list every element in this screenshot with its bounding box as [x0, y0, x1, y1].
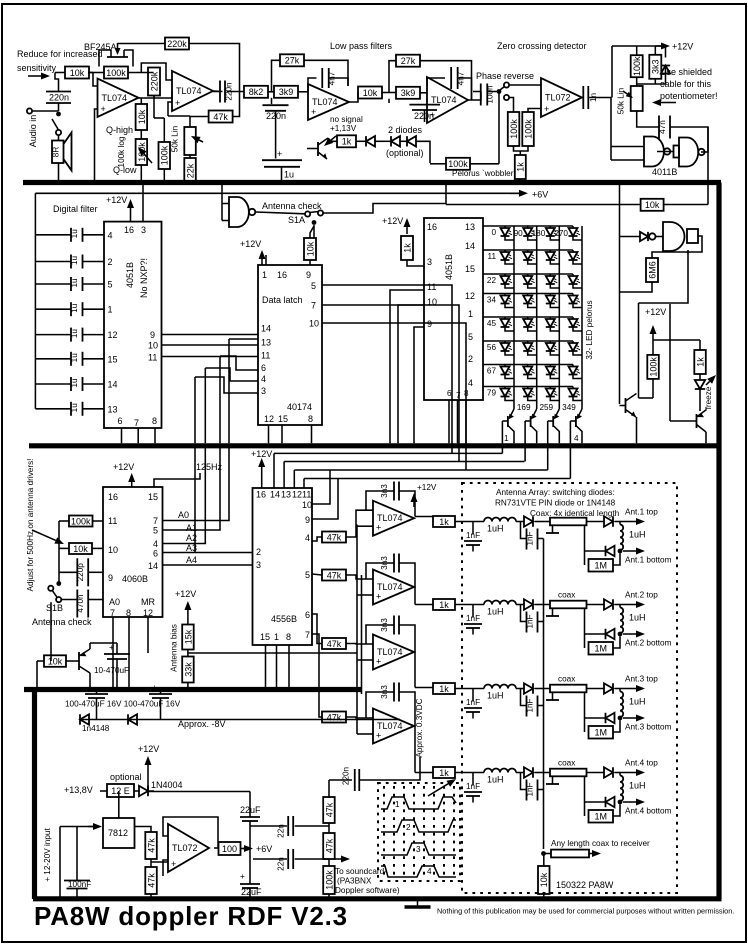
svg-text:6: 6	[261, 363, 266, 373]
svg-text:2: 2	[468, 354, 473, 364]
svg-text:+12V: +12V	[251, 449, 272, 459]
wire driver base feed 3	[294, 469, 547, 471]
LED D32	[527, 274, 529, 276]
svg-text:potentiometer!: potentiometer!	[660, 91, 718, 101]
resistor 1k ch2	[433, 599, 455, 610]
diode freeze LED	[695, 380, 705, 389]
wire 1n to 4011 inputs	[589, 98, 611, 161]
svg-text:100k: 100k	[106, 68, 126, 78]
nand gate U3d antenna check	[221, 185, 223, 221]
capacitor 220n audio input	[46, 91, 71, 93]
resistor 1k ch3	[433, 683, 455, 694]
wire op2 inputs	[141, 63, 172, 80]
resistor 33k	[182, 657, 194, 683]
svg-text:TL074: TL074	[377, 721, 403, 731]
transistor Q freeze right	[696, 414, 698, 428]
svg-text:Zero crossing detector: Zero crossing detector	[497, 41, 587, 51]
svg-text:+: +	[152, 683, 157, 692]
arrow to transistor	[331, 136, 336, 140]
wire to ant bottom ch1	[623, 550, 636, 552]
svg-text:Nothing of this publication ma: Nothing of this publication may be used …	[437, 907, 734, 916]
LED D71	[504, 365, 506, 367]
resistor 100k vertical mid	[159, 142, 171, 169]
svg-text:10: 10	[427, 297, 437, 307]
svg-text:10k: 10k	[539, 872, 549, 887]
svg-text:15: 15	[260, 632, 270, 642]
svg-text:12: 12	[143, 608, 153, 618]
svg-text:0: 0	[491, 228, 496, 237]
LED D81	[504, 387, 506, 389]
wire op plus ch3	[357, 659, 373, 661]
resistor 3k9 first	[274, 86, 298, 98]
svg-text:1k: 1k	[516, 162, 526, 172]
diode switching ch2	[524, 599, 533, 609]
wire op1 out to 10k-v	[140, 98, 142, 104]
transistor Q1 column driver	[507, 416, 509, 427]
LED D44	[572, 294, 574, 296]
svg-text:16: 16	[277, 270, 287, 280]
svg-text:4: 4	[305, 533, 310, 543]
inductor 1uH vertical ch1	[619, 522, 621, 525]
nand gate U3c with input bubble	[649, 233, 655, 239]
svg-text:+12V: +12V	[240, 239, 261, 249]
op-amp U2b TL072	[168, 824, 209, 872]
resistor 47k driver ch1	[322, 532, 346, 543]
svg-text:4: 4	[261, 374, 266, 384]
svg-text:Q-low: Q-low	[113, 165, 137, 175]
ground symbol bottom	[417, 899, 419, 906]
wire 47n to gate2 out	[670, 127, 708, 153]
capacitor 1u rung 8 pin 13	[35, 408, 71, 410]
wire 100k bottoms join	[514, 146, 529, 151]
transistor Q freeze left	[625, 398, 627, 413]
svg-text:1u: 1u	[70, 256, 79, 266]
diode D3 optional	[407, 136, 416, 146]
wire 10k latch to pin9	[309, 260, 311, 265]
wire wobbler to phase node	[498, 92, 500, 164]
svg-text:10k: 10k	[48, 656, 63, 666]
svg-text:79: 79	[487, 389, 497, 398]
wire 47k junction	[150, 859, 152, 867]
svg-text:8: 8	[152, 416, 157, 426]
LED D14	[572, 226, 574, 228]
capacitor 100nF	[64, 880, 90, 882]
wire latch pin1 stub	[265, 255, 267, 265]
capacitor 1nF series ch4	[521, 773, 527, 790]
wire feedback TL072	[163, 817, 218, 849]
wire out to 22n caps	[250, 825, 287, 827]
svg-text:3: 3	[256, 560, 261, 570]
svg-text:TL072: TL072	[172, 843, 198, 853]
resistor 1M ch1	[589, 559, 614, 572]
wire LED row 6	[484, 340, 574, 342]
svg-text:10: 10	[309, 319, 319, 329]
svg-text:40174: 40174	[287, 402, 312, 412]
capacitor 220n op2 output	[219, 81, 221, 103]
resistor 6M6	[646, 258, 658, 282]
svg-text:100k: 100k	[160, 145, 170, 165]
op-amp U1a TL074	[98, 79, 139, 118]
LED D34	[572, 274, 574, 276]
resistor 100 ohm	[219, 842, 241, 855]
wire op4 output	[468, 92, 481, 101]
svg-text:6: 6	[118, 416, 123, 426]
wire 220k right to op2 output node	[189, 44, 240, 92]
wire IC1 bottom pins to bus	[121, 428, 123, 443]
svg-text:S1B: S1B	[46, 603, 63, 613]
inductor 1uH ch3	[484, 685, 516, 689]
capacitor 1u rung 2 pin 2	[35, 261, 71, 263]
svg-text:3: 3	[141, 225, 146, 235]
potentiometer 50k Lin shielded	[631, 86, 643, 111]
resistor 3k3	[649, 55, 661, 79]
LED D61	[504, 341, 506, 343]
svg-text:100k: 100k	[324, 870, 334, 890]
resistor 1M ch4	[589, 810, 614, 823]
wire 1k freeze top	[699, 340, 701, 350]
svg-text:7: 7	[456, 391, 461, 400]
svg-text:47k: 47k	[327, 639, 342, 649]
wire left rail S1B	[58, 521, 60, 584]
svg-text:4556B: 4556B	[271, 614, 297, 624]
wire bias rail vertical	[356, 525, 358, 735]
wire wobbler leads	[430, 163, 446, 165]
svg-text:sensitivity: sensitivity	[17, 63, 57, 73]
wire 1k wobbler to ground bus	[519, 179, 521, 181]
svg-text:+: +	[311, 107, 316, 117]
svg-text:Ant.2 bottom: Ant.2 bottom	[625, 639, 672, 648]
wire gate3 to 12V node	[639, 250, 689, 303]
svg-text:MR: MR	[141, 597, 155, 607]
svg-text:220n: 220n	[49, 93, 69, 103]
wire cap to collector	[90, 642, 117, 644]
svg-text:2: 2	[406, 823, 411, 832]
svg-text:1: 1	[262, 270, 267, 280]
svg-text:16: 16	[427, 222, 437, 232]
svg-text:15k: 15k	[183, 629, 193, 644]
capacitor 22n a	[287, 816, 289, 836]
resistor 10k lpf	[358, 87, 382, 99]
svg-text:+: +	[376, 731, 381, 741]
diode antenna bottom ch1	[606, 546, 615, 556]
svg-text:no signal: no signal	[330, 115, 363, 124]
svg-text:6M6: 6M6	[647, 261, 657, 279]
LED D21	[504, 250, 506, 252]
svg-text:TL072: TL072	[545, 93, 571, 103]
svg-text:9: 9	[108, 573, 113, 583]
svg-text:7: 7	[134, 418, 139, 428]
svg-text:100nF: 100nF	[68, 880, 91, 889]
wire S1A to right	[323, 204, 446, 214]
wire switch bottom node	[509, 98, 514, 113]
wire latch right pin5 loop	[322, 285, 452, 453]
wire 27k op4 loop	[389, 61, 396, 93]
svg-text:3: 3	[416, 845, 421, 854]
capacitor 100n phase	[480, 84, 482, 106]
wire 10k right to 4011 node	[664, 204, 708, 206]
transistor bias npn	[317, 142, 319, 156]
wire op2 output to 220n	[213, 90, 223, 93]
wire 47k to op minus ch4	[346, 717, 373, 718]
inductor 1uH ch4	[484, 769, 516, 773]
wire 4556 top pins up	[273, 453, 275, 488]
wire TL072 plus	[163, 860, 168, 876]
svg-text:Any length coax to receiver: Any length coax to receiver	[551, 839, 650, 848]
wire pot bottom to ground bus	[140, 165, 142, 180]
wire feedback ch3	[366, 625, 394, 644]
LED D33	[549, 274, 551, 276]
svg-text:16: 16	[108, 492, 118, 502]
svg-text:32- LED pelorus: 32- LED pelorus	[585, 300, 594, 359]
diode antenna top ch4	[604, 767, 613, 777]
wire LED row 7	[484, 364, 574, 366]
wire input to 7812	[60, 826, 94, 828]
op-amp U9 ch2 TL074	[373, 570, 414, 605]
wire LED row 5	[484, 316, 574, 318]
wire JFET leads	[99, 50, 111, 67]
resistor 10k 4060	[69, 543, 92, 554]
svg-text:+: +	[88, 683, 93, 692]
svg-text:14: 14	[261, 324, 271, 334]
wire 10k latch top to switch	[313, 225, 315, 238]
waveform trace 4	[381, 866, 456, 877]
wire +12V rail top	[612, 45, 662, 47]
wire gate2 output	[701, 151, 708, 153]
wire diode junctions	[375, 140, 391, 142]
wires latch left feeders	[228, 339, 230, 443]
LED D64	[572, 341, 574, 343]
wire coil bottom ch4	[619, 800, 621, 803]
svg-text:220n: 220n	[342, 766, 351, 785]
svg-text:100n: 100n	[486, 85, 495, 104]
svg-text:4060B: 4060B	[122, 574, 148, 584]
svg-text:22: 22	[487, 276, 497, 285]
resistor 27k op3 feedback	[280, 54, 304, 66]
capacitor 1nF shunt ch3	[472, 689, 474, 702]
wire op output ch1	[414, 517, 415, 519]
thick frame right vertical	[716, 183, 721, 900]
capacitor 3n3 ch3	[393, 616, 395, 635]
wire 22n to 47k net	[295, 825, 329, 827]
capacitor 1u rung 3 pin 5	[35, 283, 71, 285]
svg-text:12 E: 12 E	[111, 786, 130, 796]
wire 33k to bus	[187, 683, 189, 688]
wire 6M6 bottom left	[620, 282, 653, 292]
svg-text:Approx. -8V: Approx. -8V	[178, 719, 226, 729]
svg-text:Use shielded: Use shielded	[660, 67, 712, 77]
svg-text:1u: 1u	[70, 353, 79, 363]
LED D54	[572, 317, 574, 319]
svg-text:11: 11	[488, 252, 497, 261]
thick frame left vertical	[32, 688, 37, 900]
svg-text:10: 10	[302, 500, 312, 510]
thick frame bottom	[33, 896, 722, 901]
svg-text:12: 12	[292, 490, 302, 500]
arrow +12V top right	[655, 45, 661, 47]
svg-text:8: 8	[286, 632, 291, 642]
svg-text:1nF: 1nF	[466, 698, 480, 707]
waveform trace 3	[381, 843, 456, 855]
svg-text:22uF: 22uF	[241, 887, 262, 897]
svg-text:TL074: TL074	[431, 95, 457, 105]
svg-text:4051B: 4051B	[444, 254, 454, 280]
wire 1k to coil ch2	[455, 604, 484, 606]
inductor 1uH vertical ch4	[619, 773, 621, 776]
svg-text:22n: 22n	[277, 857, 286, 871]
svg-text:6: 6	[305, 610, 310, 620]
wire 220k-v bottom down	[153, 96, 155, 119]
svg-text:10k: 10k	[73, 544, 88, 554]
svg-text:5: 5	[305, 570, 310, 580]
svg-text:1: 1	[504, 434, 509, 443]
wire 4556 pin7 to 47k ch4	[312, 634, 322, 717]
capacitor 470n	[61, 599, 77, 601]
svg-text:+: +	[240, 872, 245, 881]
svg-text:15: 15	[148, 492, 158, 502]
svg-text:2: 2	[256, 547, 261, 557]
svg-text:1uH: 1uH	[487, 524, 504, 534]
wire driver base feed 4	[304, 478, 570, 480]
svg-text:27k: 27k	[285, 56, 300, 66]
wires IC3 left feeders	[390, 290, 424, 443]
LED D13	[549, 226, 551, 228]
svg-text:Antenna check: Antenna check	[32, 617, 92, 627]
resistor 15k	[182, 625, 194, 650]
svg-text:220p: 220p	[76, 563, 85, 582]
svg-text:2 diodes: 2 diodes	[388, 125, 423, 135]
wire op output ch3	[414, 651, 415, 653]
potentiometer 100k log	[136, 139, 148, 165]
svg-text:1M: 1M	[594, 561, 607, 571]
wire +12V rail right	[148, 791, 250, 793]
LED D23	[549, 250, 551, 252]
wire input rail	[59, 827, 61, 881]
wire Q2 emitter	[705, 432, 707, 443]
ground coax ch2	[552, 608, 554, 616]
svg-text:+: +	[376, 657, 381, 667]
svg-text:100k: 100k	[632, 56, 642, 76]
wire MR to junction	[147, 617, 149, 653]
svg-text:4: 4	[427, 867, 432, 876]
wire op1 - input node	[88, 72, 93, 74]
svg-text:1nF: 1nF	[525, 782, 534, 796]
svg-text:+1,13V: +1,13V	[330, 124, 357, 133]
svg-text:Phase reverse: Phase reverse	[476, 71, 534, 81]
wire coil to diode ch3	[516, 688, 524, 690]
wire bias rail second	[361, 575, 363, 694]
wire 4556 pin9 stub	[312, 479, 338, 520]
svg-text:A0: A0	[178, 510, 189, 520]
wire op3 output to 10k	[348, 93, 358, 103]
LED D31	[504, 274, 506, 276]
svg-text:349: 349	[562, 403, 576, 412]
svg-text:100: 100	[222, 844, 237, 854]
svg-text:10k: 10k	[645, 200, 660, 210]
wire latch right pin7 loop	[322, 305, 459, 462]
svg-text:(optional): (optional)	[386, 148, 424, 158]
svg-text:4: 4	[108, 230, 113, 240]
svg-text:9: 9	[306, 270, 311, 280]
svg-text:Adjust for 500Hz on antenna dr: Adjust for 500Hz on antenna drivers!	[26, 459, 35, 592]
LED D41	[504, 294, 506, 296]
svg-text:+: +	[171, 859, 176, 869]
LED D24	[572, 250, 574, 252]
svg-text:22n: 22n	[277, 824, 286, 838]
capacitor 1nF series ch1	[521, 522, 527, 539]
svg-text:+: +	[101, 104, 106, 114]
svg-text:67: 67	[487, 367, 497, 376]
svg-text:47n: 47n	[658, 120, 667, 134]
svg-text:2: 2	[108, 257, 113, 267]
svg-text:To soundcard-: To soundcard-	[335, 867, 387, 876]
svg-text:7: 7	[311, 301, 316, 311]
wire 4556 pin5 to 47k ch2	[312, 574, 322, 575]
wire A1	[163, 448, 221, 530]
capacitor 220p	[59, 571, 77, 573]
inductor 1uH vertical ch2	[619, 605, 621, 608]
wire feed line ch1	[543, 539, 545, 622]
svg-text:15: 15	[108, 354, 118, 364]
capacitor 3n3 ch2	[393, 554, 395, 573]
diode antenna top ch3	[604, 683, 613, 693]
svg-text:Antenna bias: Antenna bias	[170, 624, 179, 672]
wire 10k-v to pot	[140, 130, 142, 139]
svg-text:1uH: 1uH	[487, 775, 504, 785]
svg-text:TL074: TL074	[377, 582, 403, 592]
resistor 27k op4 feedback	[396, 55, 420, 67]
diode switching ch1	[524, 516, 533, 526]
svg-text:Ant.4 bottom: Ant.4 bottom	[625, 807, 672, 816]
wire coil bottom ch2	[619, 632, 621, 635]
ground bus middle (thick)	[29, 443, 721, 448]
potentiometer 50k Lin	[184, 127, 196, 155]
svg-text:8: 8	[464, 389, 469, 398]
wire audio-in jack to 10k	[55, 72, 65, 74]
svg-text:+: +	[376, 523, 381, 533]
svg-text:10k: 10k	[363, 88, 378, 98]
IC 7812	[103, 818, 135, 848]
LED D84	[572, 387, 574, 389]
svg-text:1nF: 1nF	[525, 614, 534, 628]
waveform diagram box	[378, 783, 460, 881]
svg-text:1k: 1k	[439, 517, 449, 527]
svg-text:8k2: 8k2	[249, 87, 264, 97]
wire coil to diode ch2	[516, 604, 524, 606]
wire 100 to +6V	[241, 848, 247, 850]
resistor 100k 4060	[69, 516, 93, 527]
svg-text:TL074: TL074	[312, 97, 338, 107]
svg-text:1u: 1u	[70, 303, 79, 313]
svg-text:1k: 1k	[402, 243, 412, 253]
svg-text:+12V: +12V	[113, 462, 134, 472]
resistor 100k phase B	[522, 112, 534, 146]
svg-text:1: 1	[395, 800, 400, 809]
svg-text:56: 56	[487, 343, 497, 352]
wire A0	[163, 448, 230, 521]
svg-text:3k9: 3k9	[279, 87, 294, 97]
svg-text:470n: 470n	[76, 594, 85, 613]
svg-text:13: 13	[261, 338, 271, 348]
svg-text:S1A: S1A	[288, 215, 305, 225]
svg-text:freeze: freeze	[704, 386, 713, 409]
op-amp U1d TL074	[427, 77, 468, 123]
wire speaker to ground bus	[58, 135, 60, 141]
wire 7812 out	[135, 827, 152, 833]
wire 47k sc join	[328, 823, 330, 833]
svg-text:14: 14	[108, 380, 118, 390]
svg-text:47k: 47k	[146, 838, 156, 853]
svg-text:+12V: +12V	[672, 42, 693, 52]
